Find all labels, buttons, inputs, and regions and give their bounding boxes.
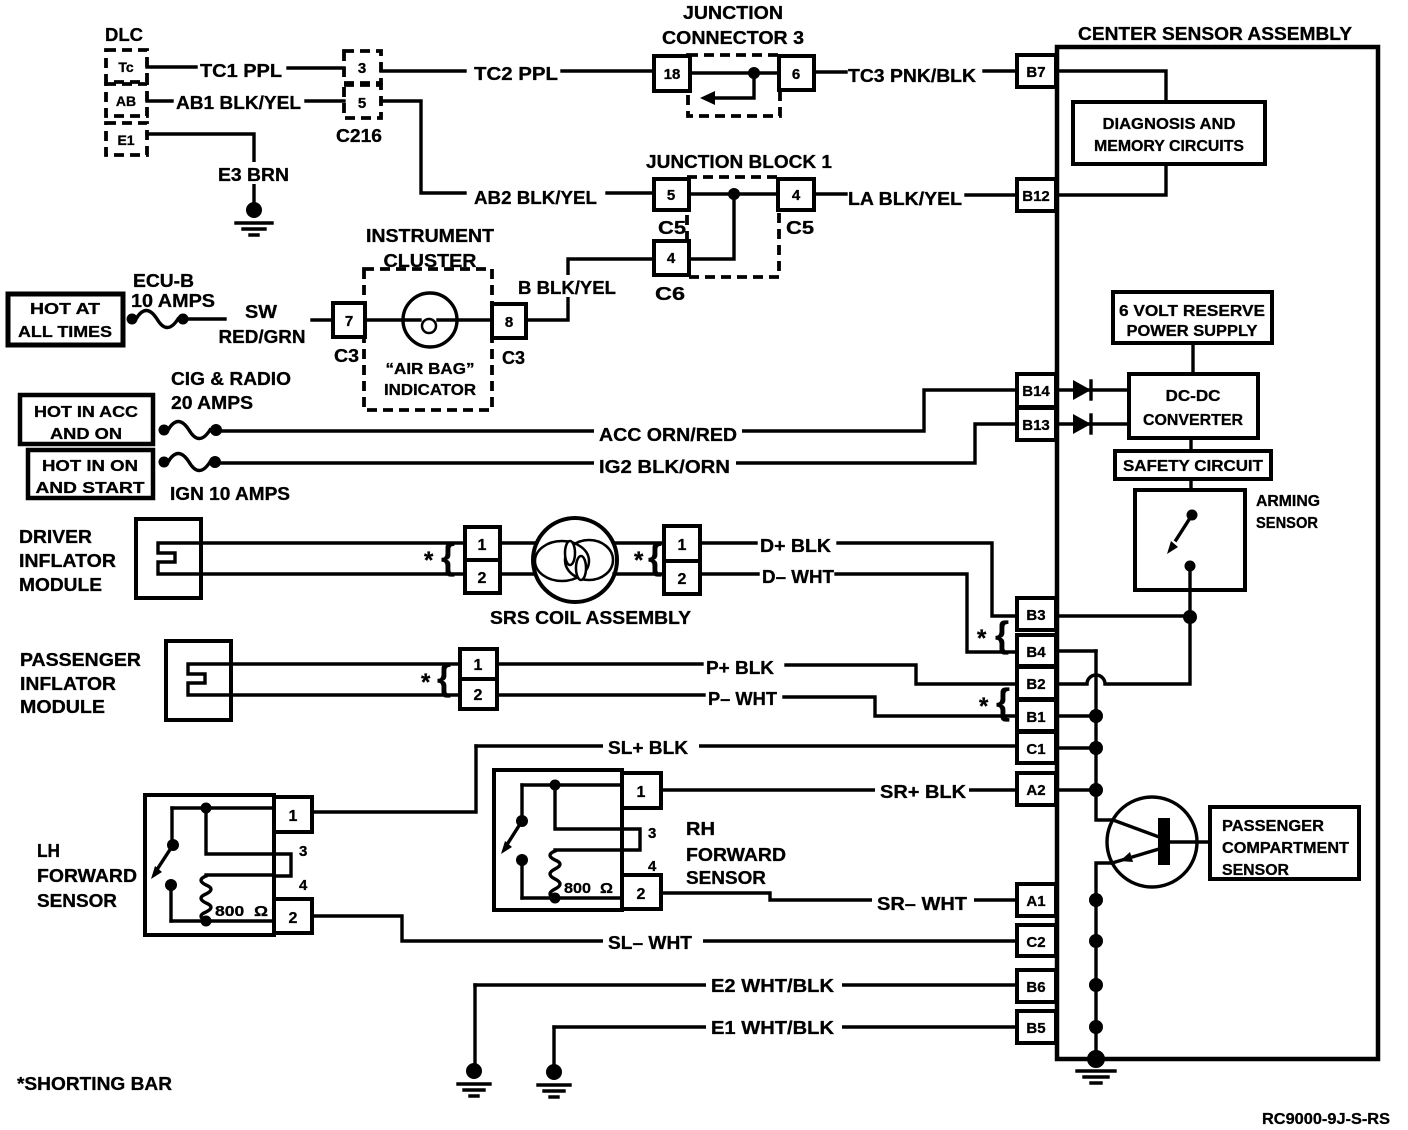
wire from junction dot down to pin 4 C6 bbox=[689, 194, 734, 259]
svg-text:“AIR BAG”: “AIR BAG” bbox=[386, 361, 475, 378]
svg-text:4: 4 bbox=[648, 858, 657, 875]
LH forward sensor box bbox=[145, 795, 274, 935]
svg-text:6 VOLT RESERVE: 6 VOLT RESERVE bbox=[1119, 303, 1265, 320]
wire node down and left to B2 with hop over bus bbox=[1055, 617, 1190, 684]
wire reserve supply to dc-dc converter bbox=[1191, 343, 1194, 374]
node junction dot in junction block 1 bbox=[728, 188, 740, 200]
arming sensor box bbox=[1135, 490, 1245, 590]
connector junction block 1 pin 5 C5 bbox=[654, 179, 689, 210]
svg-text:1: 1 bbox=[478, 537, 487, 554]
svg-text:HOT IN ON: HOT IN ON bbox=[42, 458, 138, 475]
svg-text:D+ BLK: D+ BLK bbox=[760, 536, 831, 556]
node B6 bus junction bbox=[1089, 978, 1103, 992]
connector LH pin 1 bbox=[274, 797, 312, 832]
svg-text:C3: C3 bbox=[502, 348, 525, 368]
LH pins 3-4 shorting link bbox=[274, 854, 291, 876]
svg-text:RC9000-9J-S-RS: RC9000-9J-S-RS bbox=[1262, 1111, 1390, 1128]
svg-text:SENSOR: SENSOR bbox=[37, 891, 117, 911]
wire E1 WHT/BLK to B5 bbox=[554, 1025, 1017, 1028]
wire passenger module to connector pin 1 bbox=[231, 662, 460, 665]
label ACC ORN/RED bbox=[594, 421, 742, 444]
wire LH junction down to pin 3 bbox=[206, 808, 274, 854]
box HOT IN ON AND START bbox=[28, 450, 153, 498]
svg-text:PASSENGER: PASSENGER bbox=[1222, 818, 1324, 835]
ground center sensor assembly bbox=[1087, 1050, 1105, 1068]
svg-text:C216: C216 bbox=[336, 126, 382, 146]
node RH bottom junction bbox=[550, 893, 561, 904]
svg-text:B4: B4 bbox=[1026, 644, 1046, 661]
wire B3 to arming node bbox=[1055, 614, 1190, 617]
svg-text:B12: B12 bbox=[1022, 188, 1050, 205]
junction connector 3 dashed outline bbox=[688, 55, 780, 116]
svg-text:DC-DC: DC-DC bbox=[1166, 388, 1221, 405]
node LH top junction bbox=[201, 803, 212, 814]
svg-text:10 AMPS: 10 AMPS bbox=[131, 291, 215, 311]
svg-text:E1: E1 bbox=[117, 132, 134, 148]
svg-text:C2: C2 bbox=[1026, 934, 1045, 951]
svg-text:B1: B1 bbox=[1026, 709, 1045, 726]
svg-text:HOT IN ACC: HOT IN ACC bbox=[34, 404, 138, 421]
connector C216 pin 5 bbox=[344, 85, 381, 118]
svg-text:6: 6 bbox=[792, 66, 800, 83]
connector RH pin 1 bbox=[622, 773, 661, 808]
svg-text:B13: B13 bbox=[1022, 417, 1050, 434]
wire TC2 from C216 pin 3 to junction connector 3 pin 18 bbox=[381, 69, 654, 72]
wire SL- WHT from LH pin 2 to C2 bbox=[312, 916, 1017, 941]
svg-text:2: 2 bbox=[289, 910, 298, 927]
svg-text:CONNECTOR 3: CONNECTOR 3 bbox=[662, 28, 804, 48]
wire SRS coil to right connector pin 1 bbox=[614, 541, 664, 544]
connector cluster pin 8 C3 bbox=[492, 304, 526, 338]
svg-text:LA BLK/YEL: LA BLK/YEL bbox=[848, 189, 962, 209]
svg-text:SR– WHT: SR– WHT bbox=[877, 894, 967, 914]
svg-text:SL+ BLK: SL+ BLK bbox=[608, 738, 688, 758]
svg-text:IG2 BLK/ORN: IG2 BLK/ORN bbox=[599, 457, 730, 477]
passenger inflator module box bbox=[166, 641, 231, 720]
svg-text:1: 1 bbox=[289, 808, 298, 825]
wire TC3 from pin 6 to B7 bbox=[814, 71, 1017, 72]
label E2 WHT/BLK bbox=[706, 972, 842, 996]
ground E1 bbox=[546, 1064, 562, 1080]
transistor passenger compartment sensor bbox=[1107, 797, 1197, 887]
wire C1 to bus bbox=[1055, 746, 1096, 749]
LH sensor internal top wire bbox=[172, 806, 274, 809]
connector passenger pin 1 bbox=[460, 649, 497, 679]
svg-text:20 AMPS: 20 AMPS bbox=[171, 393, 253, 413]
svg-text:8: 8 bbox=[505, 314, 513, 331]
svg-text:MODULE: MODULE bbox=[19, 575, 102, 595]
LH sensor switch bbox=[170, 808, 173, 845]
svg-text:Tc: Tc bbox=[118, 59, 134, 75]
wire between pins 18 and 6 bbox=[690, 71, 779, 74]
wire A2 to bus bbox=[1055, 788, 1096, 791]
wire between junction block pins 5 and 4 bbox=[689, 192, 778, 195]
connector pin B5 bbox=[1017, 1011, 1056, 1043]
svg-text:MODULE: MODULE bbox=[20, 697, 105, 717]
svg-text:4: 4 bbox=[667, 250, 676, 267]
svg-text:*: * bbox=[979, 693, 989, 720]
svg-text:C1: C1 bbox=[1026, 741, 1045, 758]
junction block 1 dashed outline bbox=[687, 177, 779, 277]
svg-text:5: 5 bbox=[358, 95, 366, 112]
svg-text:SW: SW bbox=[245, 302, 277, 322]
svg-text:CIG & RADIO: CIG & RADIO bbox=[171, 369, 291, 389]
wire E3 from DLC E1 to ground bbox=[147, 134, 254, 205]
svg-text:B6: B6 bbox=[1026, 979, 1045, 996]
svg-text:CENTER SENSOR ASSEMBLY: CENTER SENSOR ASSEMBLY bbox=[1078, 24, 1352, 44]
node A2 bus junction bbox=[1089, 783, 1103, 797]
svg-text:IGN 10 AMPS: IGN 10 AMPS bbox=[170, 484, 290, 504]
svg-text:{: { bbox=[996, 681, 1010, 722]
svg-text:SENSOR: SENSOR bbox=[1256, 515, 1318, 532]
wire safety circuit to arming sensor bbox=[1189, 479, 1192, 515]
connector driver pin 2 bbox=[465, 560, 500, 593]
svg-text:B3: B3 bbox=[1026, 607, 1045, 624]
svg-text:AB1 BLK/YEL: AB1 BLK/YEL bbox=[176, 93, 301, 113]
wire SRS coil to right connector pin 2 bbox=[614, 572, 664, 575]
wire D+ BLK to B3 bbox=[700, 543, 1017, 616]
node B5 bus junction bbox=[1089, 1020, 1103, 1034]
svg-text:INFLATOR: INFLATOR bbox=[19, 551, 116, 571]
svg-text:2: 2 bbox=[474, 687, 483, 704]
node LH bottom junction bbox=[201, 916, 212, 927]
svg-text:SAFETY CIRCUIT: SAFETY CIRCUIT bbox=[1123, 458, 1263, 475]
6 volt reserve power supply box bbox=[1113, 292, 1272, 343]
svg-text:*: * bbox=[977, 625, 987, 652]
svg-text:3: 3 bbox=[648, 825, 656, 842]
wire B4 to internal bus bbox=[1055, 649, 1096, 652]
wire B7 to diagnosis circuits bbox=[1056, 71, 1166, 102]
diagnosis and memory circuits box bbox=[1073, 102, 1265, 164]
diode at B14 bbox=[1073, 380, 1091, 400]
wire TC1 from DLC Tc to C216 pin 3 bbox=[147, 67, 344, 68]
wire LA from junction block pin 4 to B12 bbox=[814, 194, 1017, 195]
fuse CIG & RADIO bbox=[159, 425, 170, 436]
wire LH sensor pin 1 up to SL+ wire bbox=[312, 746, 476, 812]
svg-text:JUNCTION BLOCK 1: JUNCTION BLOCK 1 bbox=[646, 152, 832, 172]
SRS coil assembly symbol bbox=[533, 518, 617, 602]
connector pin B2 bbox=[1017, 667, 1056, 699]
connector pin B12 bbox=[1017, 179, 1056, 211]
svg-text:SL– WHT: SL– WHT bbox=[608, 933, 692, 953]
wire driver module to connector pin 1 bbox=[201, 541, 465, 544]
connector pin B4 bbox=[1017, 635, 1056, 666]
svg-text:CONVERTER: CONVERTER bbox=[1143, 412, 1243, 429]
wire B12 to diagnosis circuits bbox=[1056, 164, 1166, 195]
wire AB1 from DLC AB to C216 pin 5 bbox=[147, 99, 344, 102]
safety circuit box bbox=[1115, 451, 1271, 479]
lamp AIR BAG indicator bbox=[403, 293, 457, 347]
svg-text:*SHORTING BAR: *SHORTING BAR bbox=[17, 1074, 172, 1094]
passenger compartment sensor label box bbox=[1210, 807, 1359, 879]
wire B1 to bus bbox=[1055, 714, 1096, 717]
svg-text:C6: C6 bbox=[655, 284, 685, 304]
svg-text:AB2 BLK/YEL: AB2 BLK/YEL bbox=[474, 188, 597, 208]
connector pin A2 bbox=[1017, 773, 1056, 805]
wire B BLK/YEL from junction block pin 4 C6 to cluster pin 8 bbox=[526, 259, 654, 320]
svg-text:*: * bbox=[421, 669, 431, 696]
passenger inflator module squib symbol bbox=[188, 664, 231, 695]
svg-text:TC1 PPL: TC1 PPL bbox=[200, 61, 282, 81]
node arming/B3 junction bbox=[1183, 610, 1197, 624]
svg-text:800 Ω: 800 Ω bbox=[564, 880, 613, 897]
connector pin B13 bbox=[1017, 408, 1056, 440]
svg-text:4: 4 bbox=[299, 877, 308, 894]
svg-text:CLUSTER: CLUSTER bbox=[384, 251, 477, 271]
svg-text:JUNCTION: JUNCTION bbox=[683, 3, 783, 23]
wire arming sensor down to B3 node bbox=[1188, 566, 1191, 617]
svg-text:C5: C5 bbox=[786, 218, 814, 238]
svg-text:SENSOR: SENSOR bbox=[686, 868, 766, 888]
svg-text:3: 3 bbox=[299, 843, 307, 860]
svg-text:DRIVER: DRIVER bbox=[19, 527, 92, 547]
svg-text:INFLATOR: INFLATOR bbox=[20, 674, 116, 694]
box HOT IN ACC AND ON bbox=[20, 395, 153, 444]
wire SR- WHT from RH pin 2 to A1 bbox=[661, 893, 1017, 900]
node C2 bus junction bbox=[1089, 934, 1103, 948]
instrument cluster dashed outline bbox=[364, 269, 492, 410]
svg-text:LH: LH bbox=[37, 841, 60, 861]
RH sensor bottom wire bbox=[522, 896, 622, 899]
svg-text:B5: B5 bbox=[1026, 1020, 1045, 1037]
wire E2 down to ground bbox=[473, 985, 476, 1062]
svg-text:800 Ω: 800 Ω bbox=[215, 903, 268, 920]
svg-text:7: 7 bbox=[345, 313, 353, 330]
ground E2 bbox=[466, 1063, 482, 1079]
svg-text:18: 18 bbox=[664, 66, 681, 83]
connector pin B6 bbox=[1017, 970, 1056, 1002]
svg-text:4: 4 bbox=[792, 187, 801, 204]
connector coil pin 2 bbox=[664, 561, 700, 594]
node RH top junction bbox=[550, 780, 561, 791]
svg-text:ECU-B: ECU-B bbox=[133, 271, 194, 291]
wire arrow inside junction connector 3 bbox=[714, 73, 754, 98]
wire internal bus B4 down to transistor collector bbox=[1096, 651, 1113, 820]
label E1 WHT/BLK bbox=[706, 1014, 842, 1038]
resistor 800 ohm RH bbox=[550, 850, 622, 899]
svg-text:1: 1 bbox=[474, 657, 483, 674]
svg-text:HOT AT: HOT AT bbox=[30, 301, 100, 318]
fuse ECU-B bbox=[127, 314, 138, 325]
driver inflator module squib symbol bbox=[158, 543, 201, 574]
wire SL+ BLK to C1 bbox=[476, 744, 1017, 747]
svg-text:B2: B2 bbox=[1026, 676, 1045, 693]
fuse IGN bbox=[159, 457, 170, 468]
resistor 800 ohm LH bbox=[201, 875, 274, 921]
wire connector to SRS coil top bbox=[500, 541, 537, 544]
label SL- WHT bbox=[603, 930, 703, 952]
center sensor assembly box bbox=[1057, 47, 1378, 1059]
wire through air bag indicator lamp bbox=[365, 318, 492, 321]
svg-text:AND ON: AND ON bbox=[50, 426, 122, 443]
svg-text:INDICATOR: INDICATOR bbox=[384, 382, 476, 399]
svg-text:MEMORY CIRCUITS: MEMORY CIRCUITS bbox=[1094, 138, 1244, 155]
svg-text:1: 1 bbox=[637, 784, 646, 801]
svg-text:AND START: AND START bbox=[36, 480, 145, 497]
RH pins 3-4 shorting link bbox=[622, 829, 640, 850]
svg-text:TC2 PPL: TC2 PPL bbox=[474, 64, 558, 84]
wire IG2 BLK/ORN to B13 bbox=[220, 424, 1017, 463]
arming sensor switch bbox=[1187, 510, 1198, 521]
svg-text:C5: C5 bbox=[658, 218, 686, 238]
svg-text:A2: A2 bbox=[1026, 782, 1045, 799]
node junction dot in connector 3 bbox=[748, 67, 760, 79]
box HOT AT ALL TIMES bbox=[8, 294, 123, 345]
connector junction block 1 pin 4 C5 bbox=[778, 179, 814, 210]
svg-text:FORWARD: FORWARD bbox=[37, 866, 137, 886]
wire P+ BLK to B2 bbox=[497, 664, 1017, 684]
wire emitter to lower bus bbox=[1096, 863, 1112, 1059]
svg-text:B7: B7 bbox=[1026, 64, 1045, 81]
label SR+ BLK bbox=[875, 779, 969, 801]
wire ACC ORN/RED to B14 bbox=[221, 390, 1017, 431]
wire D- WHT to B4 bbox=[700, 574, 1017, 652]
connector pin C2 bbox=[1017, 925, 1056, 956]
label SL+ BLK bbox=[603, 735, 699, 757]
connector pin B7 bbox=[1017, 55, 1056, 87]
connector C216 pin 3 bbox=[344, 51, 381, 83]
connector DLC pin E1 bbox=[106, 123, 147, 155]
label IG2 BLK/ORN bbox=[594, 453, 736, 476]
svg-text:B14: B14 bbox=[1022, 383, 1050, 400]
svg-text:*: * bbox=[634, 547, 644, 574]
wire passenger module to connector pin 2 bbox=[231, 693, 460, 696]
svg-text:RH: RH bbox=[686, 819, 715, 839]
svg-text:E2 WHT/BLK: E2 WHT/BLK bbox=[711, 976, 834, 996]
svg-text:A1: A1 bbox=[1026, 893, 1045, 910]
svg-text:{: { bbox=[437, 657, 451, 698]
connector junction connector 3 pin 6 bbox=[779, 56, 814, 90]
svg-text:E3 BRN: E3 BRN bbox=[218, 165, 289, 185]
diode at B13 bbox=[1073, 414, 1091, 434]
connector pin B14 bbox=[1017, 374, 1056, 407]
svg-text:SENSOR: SENSOR bbox=[1222, 862, 1289, 879]
svg-text:ACC ORN/RED: ACC ORN/RED bbox=[599, 425, 737, 445]
svg-text:TC3 PNK/BLK: TC3 PNK/BLK bbox=[848, 66, 976, 86]
svg-text:ARMING: ARMING bbox=[1256, 493, 1320, 510]
connector pin B1 bbox=[1017, 700, 1056, 731]
svg-text:ALL TIMES: ALL TIMES bbox=[18, 324, 112, 341]
connector junction connector 3 pin 18 bbox=[654, 56, 690, 91]
svg-text:{: { bbox=[441, 536, 455, 577]
svg-text:2: 2 bbox=[678, 571, 687, 588]
wire E1 down to ground bbox=[552, 1027, 555, 1063]
svg-text:P+ BLK: P+ BLK bbox=[706, 658, 774, 678]
svg-text:INSTRUMENT: INSTRUMENT bbox=[366, 226, 494, 246]
wire P- WHT to B1 bbox=[497, 695, 1017, 716]
node B1 bus junction bbox=[1089, 709, 1103, 723]
svg-text:POWER SUPPLY: POWER SUPPLY bbox=[1127, 323, 1258, 340]
RH sensor internal top wire bbox=[522, 783, 622, 786]
wire SW into cluster pin 7 bbox=[312, 318, 333, 321]
wire SR+ BLK from RH pin 1 to A2 bbox=[661, 788, 1017, 791]
svg-text:SRS COIL ASSEMBLY: SRS COIL ASSEMBLY bbox=[490, 608, 691, 628]
svg-text:DIAGNOSIS AND: DIAGNOSIS AND bbox=[1103, 116, 1236, 133]
label B BLK/YEL bbox=[514, 275, 622, 297]
ground E3 BRN bbox=[246, 202, 262, 218]
svg-text:PASSENGER: PASSENGER bbox=[20, 650, 141, 670]
svg-text:AB: AB bbox=[116, 93, 136, 109]
label SR- WHT bbox=[872, 889, 974, 913]
wire transistor base to sensor label box bbox=[1170, 840, 1210, 843]
svg-text:{: { bbox=[995, 614, 1009, 655]
wire RH junction down to pin 3 bbox=[555, 785, 622, 829]
connector DLC pin Tc bbox=[106, 50, 147, 82]
connector cluster pin 7 C3 bbox=[333, 303, 365, 337]
svg-text:DLC: DLC bbox=[105, 25, 143, 45]
connector RH pin 2 bbox=[622, 875, 661, 909]
svg-text:SR+ BLK: SR+ BLK bbox=[880, 782, 966, 802]
svg-text:2: 2 bbox=[478, 570, 487, 587]
LH sensor bottom wire bbox=[171, 919, 274, 922]
svg-text:5: 5 bbox=[667, 187, 675, 204]
svg-text:D– WHT: D– WHT bbox=[762, 567, 834, 587]
svg-text:P– WHT: P– WHT bbox=[708, 689, 777, 709]
node A1 bus junction bbox=[1089, 893, 1103, 907]
wire E2 WHT/BLK to B6 bbox=[475, 983, 1017, 986]
svg-text:COMPARTMENT: COMPARTMENT bbox=[1222, 840, 1349, 857]
driver inflator module box bbox=[136, 519, 201, 598]
wire driver module to connector pin 2 bbox=[201, 572, 465, 575]
svg-text:{: { bbox=[648, 536, 662, 577]
wire connector to SRS coil bottom bbox=[500, 572, 537, 575]
svg-text:E1 WHT/BLK: E1 WHT/BLK bbox=[711, 1018, 834, 1038]
connector DLC pin AB bbox=[106, 84, 147, 116]
label E3 BRN bbox=[214, 162, 296, 184]
wire B13 to dc-dc converter bbox=[1056, 422, 1129, 425]
svg-text:RED/GRN: RED/GRN bbox=[219, 327, 306, 347]
dc-dc converter box bbox=[1129, 374, 1258, 438]
wire dc-dc converter to safety circuit bbox=[1189, 438, 1192, 451]
svg-text:1: 1 bbox=[678, 537, 687, 554]
connector junction block 1 pin 4 C6 bbox=[654, 241, 689, 275]
connector pin C1 bbox=[1017, 732, 1056, 763]
svg-text:3: 3 bbox=[358, 60, 366, 77]
wire AB2 from C216 pin 5 down to junction block 1 pin 5 bbox=[381, 101, 654, 193]
svg-text:*: * bbox=[424, 547, 434, 574]
connector coil pin 1 bbox=[664, 526, 700, 561]
connector pin A1 bbox=[1017, 884, 1056, 916]
connector passenger pin 2 bbox=[460, 679, 497, 709]
RH forward sensor box bbox=[494, 770, 622, 910]
svg-text:2: 2 bbox=[637, 886, 646, 903]
RH sensor switch bbox=[520, 785, 523, 821]
connector driver pin 1 bbox=[465, 527, 500, 560]
svg-text:C3: C3 bbox=[334, 346, 359, 366]
svg-text:B BLK/YEL: B BLK/YEL bbox=[518, 278, 616, 298]
node C1 bus junction bbox=[1089, 741, 1103, 755]
connector pin B3 bbox=[1017, 598, 1056, 630]
wire B14 to dc-dc converter bbox=[1056, 388, 1129, 391]
svg-text:FORWARD: FORWARD bbox=[686, 845, 786, 865]
connector LH pin 2 bbox=[274, 899, 312, 933]
